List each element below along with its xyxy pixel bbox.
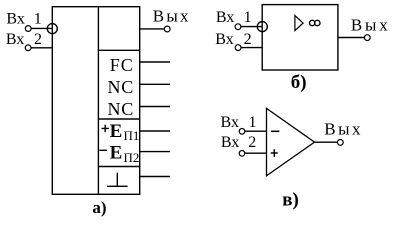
wire Вх 2 to U1 — [31, 47, 52, 49]
terminal Вх 1 (a) — [25, 26, 31, 32]
svg-text:П2: П2 — [124, 150, 140, 165]
svg-text:1: 1 — [244, 9, 252, 26]
svg-text:1: 1 — [249, 114, 257, 131]
terminal Вх 2 (a) — [25, 45, 31, 51]
terminal Вх 1 (б) — [235, 24, 241, 30]
wire Вх 1 to U3 — [245, 130, 267, 132]
pin ground — [140, 176, 170, 178]
svg-text:NC: NC — [108, 77, 135, 97]
wire Вх 2 to U3 — [245, 152, 267, 154]
U2 inversion circle (input 1) — [257, 22, 267, 32]
svg-text:2: 2 — [34, 31, 42, 48]
minus sign of -Eп2 — [99, 149, 107, 151]
U3 non-inverting input plus sign — [271, 149, 278, 157]
U1 cell divider (below output cell) — [98, 49, 139, 51]
U2 infinity gain mark — [310, 20, 315, 25]
svg-text:2: 2 — [244, 31, 252, 48]
svg-text:Вых: Вых — [351, 15, 391, 34]
terminal Вых (б) — [364, 35, 370, 41]
svg-text:Вх: Вх — [6, 31, 24, 48]
svg-text:Вх: Вх — [216, 9, 234, 26]
U3 inverting input minus sign — [271, 130, 280, 132]
svg-text:Вх: Вх — [215, 31, 233, 48]
svg-text:Вх: Вх — [221, 114, 239, 131]
wire output (a) — [140, 28, 165, 30]
wire Вх 1 to U2 — [241, 26, 262, 28]
pin NC 2 — [140, 106, 170, 108]
svg-text:Е: Е — [110, 121, 123, 142]
op-amp U1 (IC package outline, variant a) — [52, 7, 139, 195]
svg-text:Е: Е — [110, 143, 123, 164]
op-amp U3 (triangle symbol, variant в) — [267, 108, 315, 175]
svg-text:б): б) — [291, 72, 307, 93]
terminal Вх 2 (в) — [239, 151, 245, 157]
U1 cell divider (above supply cell) — [98, 118, 139, 120]
svg-text:Вх: Вх — [221, 134, 239, 151]
svg-text:а): а) — [92, 198, 106, 217]
plus sign of +Eп1 — [102, 125, 110, 132]
pin FC — [140, 61, 170, 63]
svg-text:П1: П1 — [124, 128, 140, 143]
ground symbol — [107, 173, 128, 187]
pin -Eп2 — [140, 151, 170, 153]
op-amp U2 (rectangular symbol, variant б) — [262, 5, 338, 70]
wire Вх 2 to U2 — [241, 47, 262, 49]
wire Вх 1 to U1 — [31, 27, 52, 29]
U1 inversion circle (input 1) — [47, 24, 57, 34]
svg-text:2: 2 — [248, 134, 256, 151]
U1 cell divider (above ground cell) — [98, 166, 139, 168]
terminal Вх 1 (в) — [239, 129, 245, 135]
svg-text:Вых: Вых — [153, 7, 191, 26]
U2 amplifier triangle mark — [295, 16, 303, 31]
svg-text:Вх: Вх — [6, 10, 24, 27]
terminal Вых (a) — [164, 26, 170, 32]
svg-text:NC: NC — [108, 99, 135, 119]
svg-text:FC: FC — [110, 55, 134, 75]
wire output (в) — [315, 141, 338, 143]
svg-text:1: 1 — [34, 10, 42, 27]
svg-text:Вых: Вых — [324, 119, 363, 138]
wire output (б) — [338, 37, 365, 39]
U1 inner field divider — [97, 7, 99, 195]
pin +Eп1 — [140, 130, 170, 132]
svg-text:в): в) — [282, 190, 299, 211]
pin NC 1 — [140, 83, 170, 85]
terminal Вх 2 (б) — [235, 45, 241, 51]
terminal Вых (в) — [337, 140, 343, 146]
